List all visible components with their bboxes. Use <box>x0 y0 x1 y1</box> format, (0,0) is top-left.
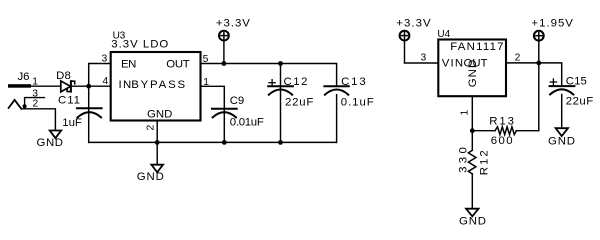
junction +1.95V node <box>536 61 541 66</box>
wire C15 to ground <box>561 95 563 129</box>
U4 pin 1 number (rotated) <box>459 110 470 116</box>
U3 pin name IN <box>119 79 132 91</box>
resistor R13 label <box>489 116 514 128</box>
svg-text:GND: GND <box>147 109 172 121</box>
U4 pin name GND (rotated) <box>467 60 479 88</box>
ground symbol below J6 <box>50 131 62 139</box>
svg-text:GND: GND <box>548 136 575 148</box>
capacitor C15 label <box>566 75 587 87</box>
wire node to U3 EN pin3 <box>89 64 111 87</box>
U3 pin 3 number <box>102 54 108 65</box>
ground symbol below rail <box>151 165 163 173</box>
wire node down to R13 <box>538 63 540 131</box>
wire node to R12 <box>471 131 473 151</box>
wire J6 pin2 run <box>21 109 55 131</box>
svg-text:VIN: VIN <box>442 58 463 70</box>
U4 pin 2 number <box>515 52 521 63</box>
ground label below R12 <box>459 215 486 227</box>
resistor R13 <box>495 127 516 135</box>
capacitor C15 plus mark <box>550 79 556 85</box>
wire node down to C11 <box>88 86 90 142</box>
op-amp U3 box <box>111 52 201 121</box>
svg-text:600: 600 <box>491 135 513 147</box>
svg-text:0.1uF: 0.1uF <box>341 97 374 109</box>
svg-text:2: 2 <box>33 99 39 110</box>
svg-text:4: 4 <box>103 76 109 87</box>
svg-text:3: 3 <box>102 54 108 65</box>
connector J6 label <box>18 71 30 83</box>
U3 pin name EN <box>121 58 136 70</box>
svg-text:1: 1 <box>459 110 470 116</box>
capacitor C15 <box>550 86 575 94</box>
connector J6 chevron (pin2 switch) <box>9 100 22 109</box>
supply +1.95V symbol <box>534 31 544 41</box>
supply +3.3V left symbol <box>219 31 229 41</box>
U3 pin 1 number <box>203 77 209 88</box>
svg-text:+3.3V: +3.3V <box>216 17 250 29</box>
svg-text:+3.3V: +3.3V <box>396 18 431 30</box>
junction C12 on ground rail <box>278 140 283 145</box>
R12 refdes (rotated) <box>479 150 491 175</box>
J6 pin3 stub <box>25 98 45 109</box>
svg-text:GND: GND <box>467 60 479 88</box>
U4 refdes <box>437 29 450 40</box>
supply +3.3V right symbol <box>400 31 410 41</box>
wire C13 down to ground rail <box>336 95 338 143</box>
wire D8 cathode to node <box>71 85 89 87</box>
wire +3.3V to OUT rail <box>223 41 225 64</box>
R13 value 600 <box>491 135 513 147</box>
U4 pin name VIN <box>442 58 463 70</box>
diode D8 label <box>56 70 71 82</box>
svg-text:22uF: 22uF <box>566 96 593 108</box>
J6 pin 1 number <box>32 77 38 88</box>
svg-text:D8: D8 <box>56 70 71 82</box>
connector J6 pin1 blade <box>8 84 31 88</box>
wire +3.3V to U4 VIN pin3 <box>405 41 439 64</box>
wire node to U3 IN pin4 <box>89 85 111 87</box>
svg-text:0.01uF: 0.01uF <box>230 117 264 129</box>
wire U4 GND pin1 <box>471 96 473 131</box>
supply +3.3V right label <box>396 18 431 30</box>
capacitor C9 <box>212 109 237 118</box>
U3 pin name BYPASS <box>131 79 185 91</box>
svg-text:22uF: 22uF <box>285 97 313 109</box>
diode D8 (schottky) <box>61 81 75 92</box>
svg-text:FAN1117: FAN1117 <box>450 41 503 53</box>
U3 refdes <box>113 30 126 41</box>
C9 value 0.01uF <box>230 117 264 129</box>
capacitor C13 label <box>341 76 366 88</box>
U4 pin name OUT <box>464 58 488 70</box>
wire J6 pin1 to D8 anode <box>31 85 61 87</box>
svg-text:2: 2 <box>515 52 521 63</box>
junction C12 on OUT rail <box>278 61 283 66</box>
junction +3.3V on OUT rail <box>222 61 227 66</box>
U3 pin name GND <box>147 109 172 121</box>
junction J6 pins 2-3 <box>23 104 27 108</box>
svg-text:C11: C11 <box>58 94 80 106</box>
svg-text:GND: GND <box>459 215 486 227</box>
supply +1.95V label <box>531 18 573 30</box>
wire R12 to ground <box>471 174 473 209</box>
wire R13 to +1.95V node <box>516 130 538 132</box>
wire +1.95V down <box>538 41 540 63</box>
capacitor C11 <box>77 108 102 117</box>
wire C12 vertical <box>280 64 282 143</box>
svg-text:3.3V LDO: 3.3V LDO <box>111 39 168 51</box>
C15 value 22uF <box>566 96 593 108</box>
capacitor C11 label <box>58 94 80 106</box>
U3 pin 5 number <box>203 54 209 65</box>
capacitor C13 <box>324 86 348 94</box>
junction R13/R12 node <box>470 128 475 133</box>
svg-text:R13: R13 <box>489 116 514 128</box>
capacitor C9 label <box>230 95 245 107</box>
U3 pin name OUT <box>166 58 189 70</box>
wire U3 OUT pin5 rail <box>201 64 337 87</box>
svg-text:C9: C9 <box>230 95 245 107</box>
svg-text:2: 2 <box>145 125 156 131</box>
C11 value 1uF <box>62 117 82 129</box>
J6 pin 3 number <box>32 89 38 100</box>
wire U3 BYPASS pin1 to C9 <box>201 86 225 142</box>
ground symbol below R12 <box>466 209 478 217</box>
ground symbol below C15 <box>556 128 568 136</box>
resistor R12 (vertical) <box>468 150 476 174</box>
svg-text:GND: GND <box>37 137 64 149</box>
ground label below C15 <box>548 136 575 148</box>
svg-text:IN: IN <box>119 79 132 91</box>
U4 value FAN1117 <box>450 41 503 53</box>
U3 pin 4 number <box>103 76 109 87</box>
svg-text:GND: GND <box>137 171 164 183</box>
ground label below J6 <box>37 137 64 149</box>
R12 value 330 (rotated) <box>457 147 469 173</box>
J6 pin 2 number <box>33 99 39 110</box>
svg-text:J6: J6 <box>18 71 30 83</box>
svg-text:330: 330 <box>457 147 469 173</box>
ground rail wire <box>89 141 337 143</box>
junction U3 GND on rail <box>155 140 160 145</box>
U3 pin 2 number (rotated) <box>145 125 156 131</box>
svg-text:+1.95V: +1.95V <box>531 18 573 30</box>
U3 value 3.3V LDO <box>111 39 168 51</box>
svg-text:3: 3 <box>421 53 427 64</box>
capacitor C12 <box>268 86 293 94</box>
C13 value 0.1uF <box>341 97 374 109</box>
U4 pin 3 number <box>421 53 427 64</box>
junction node D8 output <box>86 84 91 89</box>
svg-text:1uF: 1uF <box>62 117 82 129</box>
C12 value 22uF <box>285 97 313 109</box>
capacitor C12 plus mark <box>269 80 275 86</box>
wire U3 GND pin2 <box>156 121 158 143</box>
svg-text:OUT: OUT <box>166 58 189 70</box>
junction C9 on ground rail <box>222 140 227 145</box>
supply +3.3V left label <box>216 17 250 29</box>
svg-text:U4: U4 <box>437 29 450 40</box>
ground label below rail <box>137 171 164 183</box>
wire U4 OUT pin2 <box>506 63 562 86</box>
svg-text:R12: R12 <box>479 150 491 175</box>
wire node to R13 <box>472 130 495 132</box>
regulator U4 box <box>438 40 506 97</box>
capacitor C12 label <box>284 76 308 88</box>
svg-text:EN: EN <box>121 58 136 70</box>
wire rail to ground symbol <box>156 142 158 164</box>
